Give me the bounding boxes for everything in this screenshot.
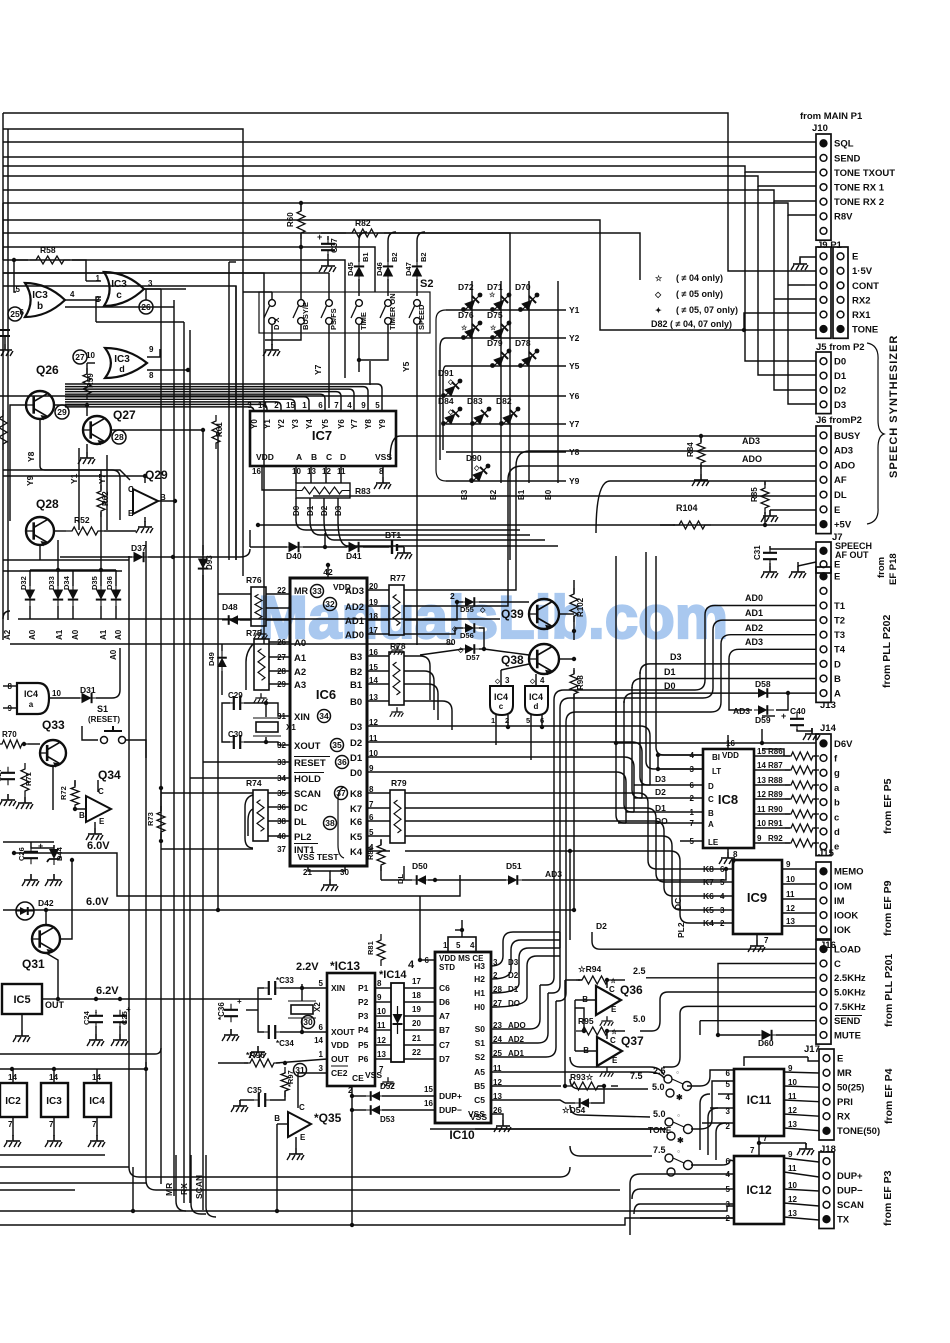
wire sw feed1 (570, 1057, 664, 1075)
wire D48 out (240, 619, 251, 621)
svg-text:c: c (834, 812, 839, 823)
svg-text:P1: P1 (358, 983, 369, 993)
wire R74 row (268, 820, 290, 822)
svg-text:D53: D53 (380, 1115, 395, 1124)
wire D32 top (29, 570, 31, 586)
junction R85 +5V (763, 523, 767, 527)
wire D40 in (250, 546, 287, 548)
svg-text:38: 38 (325, 818, 335, 828)
wire AD0 T1 (705, 606, 816, 641)
svg-text:SCAN: SCAN (294, 789, 321, 800)
wire IC8 to R92 (754, 842, 790, 844)
wire B5 row (491, 1085, 561, 1087)
svg-text:R92: R92 (768, 834, 783, 843)
brace speech synthesizer (867, 343, 884, 524)
wire matrix row Y6 (446, 395, 566, 397)
svg-text:B2: B2 (419, 252, 428, 262)
wire K row 1 (405, 808, 726, 882)
svg-text:R80: R80 (366, 846, 375, 860)
wire C37 top (327, 236, 329, 240)
wire Q27 c long (111, 429, 203, 431)
junction IC4d (540, 725, 544, 729)
junction CE D52 (350, 1094, 354, 1098)
wire AD1 route (556, 668, 721, 1001)
svg-text:PRI: PRI (837, 1097, 853, 1108)
wire Q26 e (39, 419, 41, 466)
svg-text:C30: C30 (228, 730, 243, 739)
wire long to IC12 (430, 1189, 620, 1191)
svg-text:2: 2 (690, 794, 695, 803)
wire (560, 1167, 570, 1177)
wire TONE row (430, 1128, 666, 1130)
battery BT1 (392, 540, 397, 554)
svg-text:MR: MR (837, 1068, 852, 1079)
pin-circled 30 (302, 1016, 315, 1029)
connector J13 (816, 567, 846, 702)
wire IC7 pin 6 (65, 394, 325, 411)
svg-text:Q37: Q37 (621, 1034, 644, 1048)
wire D47 hook (417, 232, 425, 241)
wire TONE TXOUT (3, 166, 816, 172)
svg-text:E: E (612, 1056, 618, 1065)
wire hbus 571 (3, 570, 122, 572)
pin-circled 26 (139, 300, 153, 314)
svg-text:☆: ☆ (655, 274, 663, 283)
svg-text:AF OUT: AF OUT (835, 550, 869, 560)
svg-text:from PLL P201: from PLL P201 (883, 954, 895, 1027)
wire Q31 c (45, 910, 47, 925)
switch speed1 (664, 1075, 672, 1083)
svg-text:IOK: IOK (834, 925, 851, 936)
crystal X1 (256, 722, 278, 732)
transistor Q31 (32, 925, 60, 954)
wire R96 in (218, 1062, 248, 1064)
svg-text:✱: ✱ (677, 1136, 684, 1145)
svg-text:18: 18 (412, 991, 421, 1000)
svg-text:Y8: Y8 (569, 447, 580, 457)
svg-text:A2: A2 (3, 629, 12, 640)
wire J9 E stub (800, 257, 816, 258)
wire R96 to OUT (276, 1059, 327, 1063)
svg-text:B0: B0 (544, 489, 553, 500)
wire to D37 (60, 556, 132, 558)
wire bus row A upper (18, 618, 500, 620)
wire C33 C34 common (258, 988, 264, 1032)
svg-text:D1: D1 (350, 753, 363, 764)
svg-text:IC10: IC10 (449, 1128, 475, 1142)
svg-text:SPEED: SPEED (417, 304, 426, 330)
wire R93 out (598, 1085, 604, 1087)
wire RESET feed (203, 761, 290, 763)
wire SEND drop (699, 1021, 701, 1035)
wire IC9 pin12 to J15 (782, 912, 816, 914)
wire TONE (3, 220, 816, 330)
junction R59 Q27 (85, 403, 89, 407)
diode D55 (461, 597, 481, 607)
svg-text:D45: D45 (346, 262, 355, 276)
svg-text:R60: R60 (286, 212, 295, 227)
svg-text:80: 80 (446, 637, 456, 647)
junction 6.2V a (94, 997, 98, 1001)
junction D91 k (458, 379, 463, 384)
svg-text:14: 14 (314, 1036, 323, 1045)
svg-text:21: 21 (412, 1034, 421, 1043)
wire D1 jog (626, 811, 634, 813)
svg-text:32: 32 (325, 599, 335, 609)
wire S2 psfs riser (328, 273, 330, 299)
svg-text:DUP+: DUP+ (439, 1091, 462, 1101)
ground C27 (0, 794, 16, 806)
connector J15 (816, 862, 864, 939)
svg-text:D84: D84 (438, 396, 454, 406)
junction R95 out (605, 1029, 609, 1033)
connector J17 (819, 1049, 880, 1140)
wire IC8 LE (680, 840, 703, 842)
wire IC4c in2 (507, 715, 509, 727)
diode D31 (78, 693, 99, 703)
wire R59 to gate (87, 362, 95, 364)
wire C29 X1 (244, 703, 266, 717)
svg-text:IC9: IC9 (747, 890, 767, 905)
resistor R82 (346, 229, 384, 237)
resistor R91 (785, 824, 819, 832)
svg-text:B0: B0 (350, 697, 362, 708)
junction X2 top (300, 986, 304, 990)
junction Q38 c (572, 657, 576, 661)
svg-text:J10: J10 (812, 123, 828, 134)
wire IC9 K5 (726, 909, 733, 911)
svg-text:c: c (116, 290, 122, 301)
svg-text:+: + (237, 997, 242, 1006)
ground IC9 (748, 940, 765, 952)
wire 6.0V rail b (3, 909, 574, 911)
wire IC14 to IC10 (404, 1029, 435, 1031)
wire IC12 vdd (758, 1143, 760, 1156)
wire R58 left (14, 259, 28, 261)
wire R74 row (268, 806, 290, 808)
wire R58 right (72, 260, 86, 281)
svg-text:A7: A7 (439, 1011, 450, 1021)
wire IC4d out (535, 674, 537, 686)
wire IC4 gnd stub (96, 1117, 98, 1136)
svg-text:R81: R81 (366, 941, 375, 955)
wire matrix col x529 (528, 281, 530, 483)
wire D60 in (718, 1034, 760, 1036)
wire Q35 c to CE2 (298, 1073, 327, 1108)
svg-text:Y1: Y1 (69, 473, 79, 484)
svg-text:D83: D83 (467, 396, 483, 406)
resistor R62 (97, 485, 105, 517)
wire B lnk (367, 670, 389, 672)
wire IC14 to IC10 (404, 1015, 435, 1017)
ground IC4 (88, 1135, 105, 1147)
svg-text:A1: A1 (294, 653, 307, 664)
wire matrix col x501 (500, 281, 502, 483)
wire IC6 pin23 (266, 607, 290, 609)
wire (559, 931, 561, 933)
svg-text:AD1: AD1 (745, 608, 763, 618)
wire bottom long 1 (0, 1206, 734, 1211)
svg-text:D32: D32 (19, 576, 28, 590)
wire D33 bottom (57, 606, 59, 619)
wire Q39 c (558, 613, 574, 615)
svg-text:R98: R98 (576, 675, 585, 690)
wire bottom stub3 (0, 1182, 146, 1184)
ground R71 (16, 797, 33, 809)
wire R88 to J14 (814, 784, 816, 786)
diode D78 (518, 348, 541, 371)
diode D75 (490, 320, 513, 343)
wire D0 row (367, 772, 626, 823)
wire IC12 pin9 to J18 (784, 1158, 819, 1162)
diode D51 (504, 875, 524, 885)
svg-text:AD0: AD0 (745, 593, 763, 603)
capacitor C25 (113, 1010, 127, 1028)
svg-text:T1: T1 (834, 601, 846, 612)
diode D56 (461, 623, 481, 633)
wire Y7 vert (106, 455, 108, 530)
svg-text:✱: ✱ (676, 1093, 683, 1102)
wire IC4a in8 (3, 685, 17, 687)
svg-text:IC4: IC4 (89, 1096, 105, 1107)
svg-text:C37: C37 (330, 238, 339, 253)
wire R95 to 5.0 (612, 1030, 625, 1032)
diode D42 (16, 907, 34, 915)
svg-text:*C36: *C36 (217, 1002, 226, 1020)
diode D32 (25, 586, 35, 607)
diode D48 (222, 615, 242, 625)
svg-text:d: d (534, 702, 539, 711)
wire R52 out (104, 530, 136, 532)
wire S2 busy riser (300, 247, 302, 299)
svg-text:LOAD: LOAD (834, 945, 861, 956)
svg-text:C6: C6 (439, 983, 450, 993)
svg-text:D0: D0 (834, 357, 846, 368)
svg-text:E: E (834, 560, 840, 571)
diode D59 (754, 705, 774, 715)
svg-text:A: A (834, 689, 841, 700)
svg-text:S1: S1 (97, 704, 108, 714)
wire S0 loop (491, 985, 540, 1029)
wire IC3d out (147, 369, 188, 371)
wire J5 D0 riser (745, 172, 816, 361)
svg-text:C35: C35 (247, 1086, 262, 1095)
wire matrix left bundle (436, 310, 446, 481)
svg-text:TONE: TONE (648, 1125, 672, 1135)
junction S2 (357, 358, 361, 362)
wire C25 gnd stub (119, 1026, 121, 1034)
diode D90 (469, 463, 492, 486)
wire D36 bottom (115, 606, 117, 619)
junction R93 in (563, 1084, 567, 1088)
junction D79 a (490, 363, 495, 368)
svg-text:R8V: R8V (834, 212, 853, 223)
diode D57 (461, 644, 481, 654)
svg-text:ADO: ADO (742, 454, 762, 464)
svg-text:◇: ◇ (654, 290, 662, 299)
svg-text:D41: D41 (346, 551, 362, 561)
transistor Q28 (26, 517, 54, 546)
transistor Q26 (26, 391, 54, 420)
wire IC7 D (340, 466, 342, 483)
svg-text:g: g (834, 768, 840, 779)
wire IC4c to Q38 (501, 664, 529, 670)
wire bus vert 236 (235, 286, 237, 560)
svg-text:B3: B3 (460, 489, 469, 500)
svg-text:Y7: Y7 (313, 364, 323, 375)
junction D82 k (516, 407, 521, 412)
diode D42 circled (16, 902, 34, 920)
svg-text:D70: D70 (515, 282, 531, 292)
wire K lnk (367, 835, 390, 837)
svg-text:C7: C7 (439, 1040, 450, 1050)
wire MR feed (218, 593, 251, 595)
wire IC5 out (42, 998, 58, 1000)
wire Q27 e (86, 444, 88, 452)
wire to J9 RX1 (744, 313, 816, 330)
wire D57 in (420, 649, 463, 655)
svg-text:R79: R79 (391, 778, 407, 788)
pin-circled 31 (294, 1064, 307, 1077)
svg-text:TONE RX 1: TONE RX 1 (834, 183, 885, 194)
svg-text:B1: B1 (361, 252, 370, 262)
resistor R84 (697, 437, 705, 469)
svg-text:IOM: IOM (834, 881, 852, 892)
svg-text:B1: B1 (350, 680, 363, 691)
junction 6.0V a (12, 851, 16, 855)
junction STD (418, 958, 422, 962)
svg-text:Y6: Y6 (569, 391, 580, 401)
junction R95 in (582, 1029, 586, 1033)
wire D32 bottom (29, 606, 31, 619)
svg-text:20: 20 (412, 1019, 421, 1028)
svg-text:◇: ◇ (457, 647, 464, 654)
svg-text:36: 36 (337, 757, 347, 767)
svg-text:K4: K4 (350, 847, 363, 858)
wire IC7 pin 3 (65, 407, 254, 412)
svg-text:B: B (274, 1114, 280, 1123)
svg-text:5: 5 (16, 285, 21, 294)
wire C34 out (280, 1031, 302, 1033)
svg-text:C24: C24 (82, 1010, 91, 1025)
wire HOLD feed (190, 777, 290, 779)
svg-text:D X: D X (272, 317, 281, 330)
capacitor C33 (263, 981, 281, 995)
svg-text:K6: K6 (350, 817, 362, 828)
svg-text:☆: ☆ (489, 291, 496, 299)
svg-text:c: c (499, 702, 504, 711)
svg-text:Q36: Q36 (620, 983, 643, 997)
svg-text:b: b (834, 798, 840, 809)
IC U IC10 (435, 952, 491, 1123)
wire AD3 to J6 (516, 451, 816, 466)
svg-text:XIN: XIN (294, 712, 310, 723)
svg-text:6.0V: 6.0V (86, 896, 109, 908)
svg-text:RX1: RX1 (852, 310, 871, 321)
diode D91 (441, 378, 464, 401)
wire IC7 B (310, 466, 312, 483)
wire D3 run (338, 520, 558, 546)
wire IC6 vdd stub (327, 565, 329, 578)
svg-text:TONE RX 2: TONE RX 2 (834, 197, 884, 208)
junction IC4c (506, 725, 510, 729)
ground R75 (254, 693, 268, 703)
wire INT1 feed (161, 848, 253, 850)
wire C37 bot (327, 254, 329, 260)
ground at J9 E (791, 258, 808, 270)
svg-text:Y0: Y0 (250, 419, 259, 429)
wire IC11 pin9 to J17 (784, 1072, 819, 1073)
svg-text:B2: B2 (489, 489, 498, 500)
wire R84 bottom (700, 464, 702, 474)
wire IC8 BI (658, 754, 703, 756)
wire R80 bottom (380, 866, 382, 880)
connector J5 (816, 352, 847, 414)
svg-text:T4: T4 (834, 645, 846, 656)
svg-text:9: 9 (757, 834, 762, 843)
pin-circled 33 (311, 585, 324, 598)
wire R90 to J14 (814, 813, 816, 815)
wire matrix row Y9 (446, 480, 566, 482)
wire Q35 b (277, 1123, 288, 1125)
wire IC3c num stub (145, 289, 147, 300)
wire bypass rail riser (0, 1048, 161, 1054)
junction IC5 out (56, 997, 60, 1001)
svg-text:1·5V: 1·5V (852, 266, 873, 277)
svg-text:PS/FS: PS/FS (329, 308, 338, 330)
wire R73 top (160, 788, 162, 811)
svg-text:K7: K7 (350, 804, 362, 815)
wire D50 D51 (428, 879, 506, 881)
svg-text:*R96: *R96 (246, 1050, 265, 1060)
svg-text:D0: D0 (350, 768, 362, 779)
svg-text:B2: B2 (350, 667, 362, 678)
svg-text:VDD: VDD (256, 452, 274, 462)
ground BT1 (395, 547, 412, 559)
svg-text:1: 1 (319, 1050, 324, 1059)
wire matrix row Y8 (446, 451, 566, 453)
wire Q29 e (144, 517, 146, 522)
wire H3 loop (491, 932, 560, 966)
wire D54 in (565, 1102, 575, 1104)
junction D56 D57 (482, 647, 486, 651)
wire D59 stub (745, 709, 752, 711)
svg-text:K8: K8 (350, 789, 362, 800)
svg-text:RX: RX (179, 1183, 189, 1195)
resistor R95 (576, 1027, 614, 1035)
ground C40 (803, 728, 820, 740)
wire matrix left b2 (440, 338, 446, 460)
svg-text:K5: K5 (350, 832, 363, 843)
svg-text:MEMO: MEMO (834, 867, 864, 878)
wire AD3 lnk (367, 589, 389, 591)
resistor R61 (212, 415, 220, 449)
IC U IC7 (250, 411, 396, 466)
wire D33 top (57, 570, 59, 586)
junction D71 k (507, 293, 512, 298)
wire R86 jog (762, 749, 784, 756)
svg-text:17: 17 (412, 977, 421, 986)
wire R92 to J14 (814, 842, 816, 844)
wire bottom stub2 (0, 1166, 129, 1168)
wire IC10 vdd link (455, 929, 462, 931)
svg-text:R59: R59 (86, 373, 95, 388)
wire R72 top (74, 780, 76, 786)
wire IC14 to IC10 (404, 987, 435, 989)
svg-text:R74: R74 (246, 778, 262, 788)
wire J5 D1 riser (758, 186, 816, 375)
brace K pins (338, 787, 344, 858)
